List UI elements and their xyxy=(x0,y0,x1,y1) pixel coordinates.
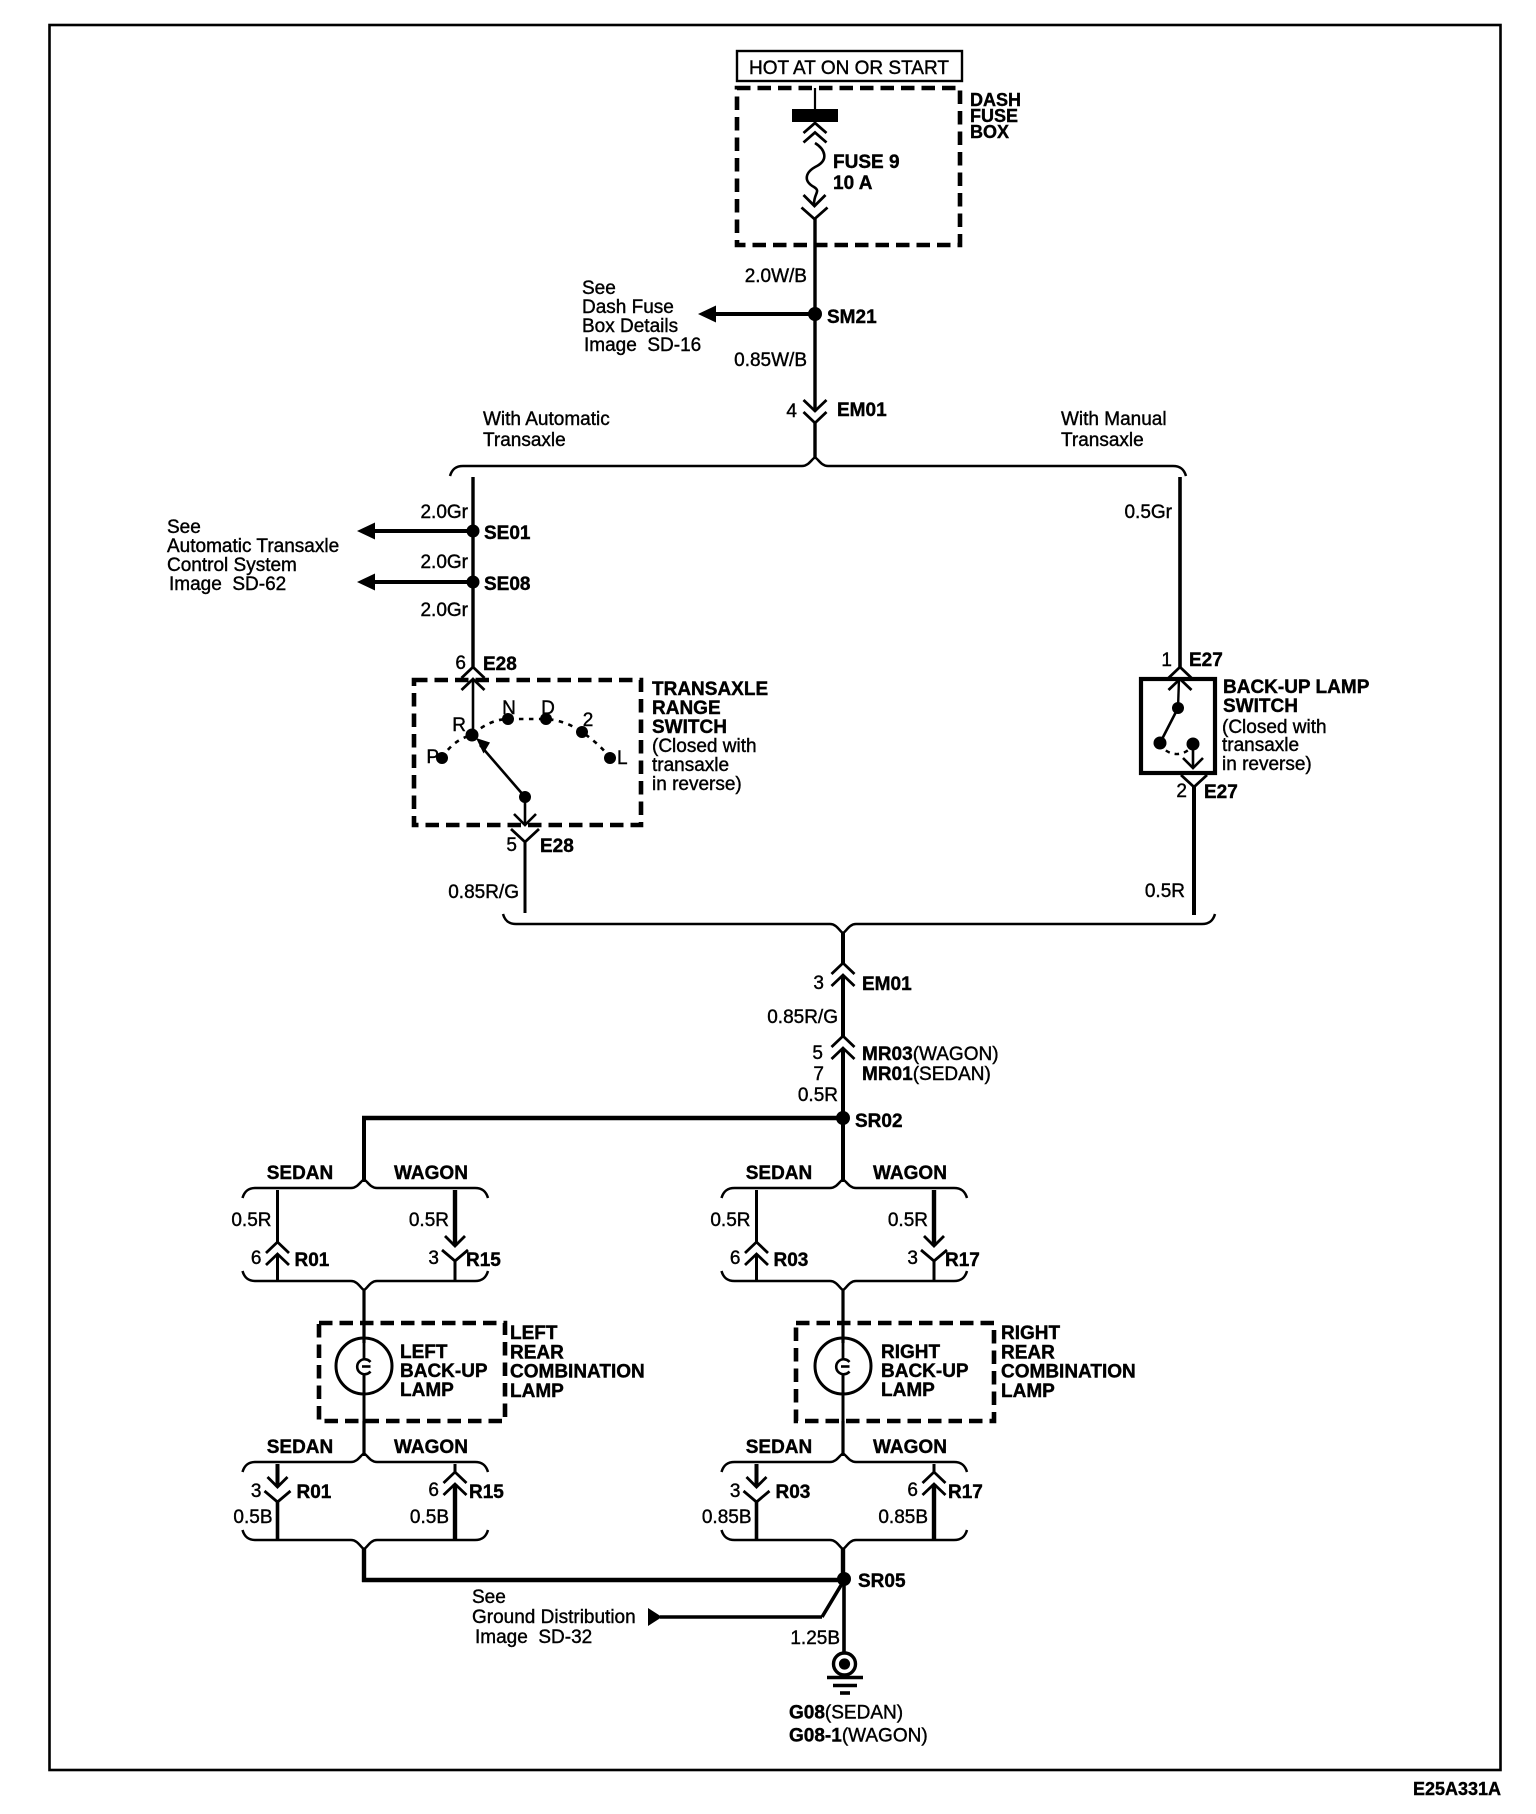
svg-text:MR03(WAGON): MR03(WAGON) xyxy=(862,1044,999,1065)
wire MR to SR02 xyxy=(841,1049,845,1119)
back-up lamp switch box xyxy=(1141,679,1215,773)
svg-text:R01: R01 xyxy=(297,1482,332,1503)
output arrow to pin 2 xyxy=(1192,744,1195,767)
svg-text:SEDAN: SEDAN xyxy=(267,1437,334,1458)
svg-text:COMBINATION: COMBINATION xyxy=(510,1362,645,1383)
svg-text:TRANSAXLE: TRANSAXLE xyxy=(652,679,768,700)
svg-text:With Manual: With Manual xyxy=(1061,409,1167,430)
merge brace Right bottom xyxy=(722,1530,968,1549)
contact L xyxy=(604,752,616,764)
svg-text:6: 6 xyxy=(455,653,466,674)
connector 6 E28 xyxy=(455,653,516,690)
svg-text:LEFT: LEFT xyxy=(510,1323,558,1344)
svg-text:SWITCH: SWITCH xyxy=(1223,696,1298,717)
contact D xyxy=(540,713,552,725)
svg-text:Control System: Control System xyxy=(167,555,297,576)
wire wagon 0.5R (Right) xyxy=(932,1190,936,1246)
svg-text:With Automatic: With Automatic xyxy=(483,409,610,430)
svg-text:EM01: EM01 xyxy=(862,974,912,995)
svg-text:G08(SEDAN): G08(SEDAN) xyxy=(789,1703,903,1724)
wire wagon ground (Right) xyxy=(932,1484,936,1540)
note See Automatic Transaxle Control System Image SD-62 xyxy=(167,517,339,595)
svg-text:3: 3 xyxy=(813,973,824,994)
wire SR02 distribution bus xyxy=(362,1116,843,1120)
svg-text:6: 6 xyxy=(907,1480,918,1501)
connector 4 EM01 xyxy=(786,400,887,423)
svg-text:L: L xyxy=(617,748,628,769)
svg-text:Image SD-16: Image SD-16 xyxy=(584,335,701,356)
movement arc (dashed) xyxy=(1160,743,1193,754)
svg-text:0.85R/G: 0.85R/G xyxy=(448,882,519,903)
svg-text:R03: R03 xyxy=(776,1482,811,1503)
svg-text:Image SD-62: Image SD-62 xyxy=(169,574,286,595)
wire wagon 0.5R (Left) xyxy=(453,1190,457,1246)
selector arc (dashed) xyxy=(442,719,610,758)
node SE08 xyxy=(467,574,531,595)
svg-text:2: 2 xyxy=(583,710,594,731)
label RIGHT BACK-UP LAMP xyxy=(881,1342,969,1401)
connector 6 R17 (wagon Right bottom) xyxy=(933,1464,936,1473)
see dash fuse box reference arrow xyxy=(698,306,815,323)
connector 3 R03 (sedan Right bottom) xyxy=(730,1477,810,1503)
svg-text:COMBINATION: COMBINATION xyxy=(1001,1362,1136,1383)
connector 6 R01 (sedan Left top) xyxy=(251,1242,330,1271)
svg-text:SR05: SR05 xyxy=(858,1571,906,1592)
svg-text:See: See xyxy=(472,1587,506,1608)
svg-text:Dash Fuse: Dash Fuse xyxy=(582,297,674,318)
svg-text:0.5R: 0.5R xyxy=(888,1210,928,1231)
connector 5 E28 xyxy=(506,829,573,857)
svg-text:E28: E28 xyxy=(483,654,517,675)
svg-text:LEFT: LEFT xyxy=(400,1342,448,1363)
label With Manual Transaxle xyxy=(1061,409,1167,451)
transaxle range switch box (dashed) xyxy=(414,680,641,825)
ground bus wire xyxy=(362,1578,845,1582)
connector 2 E27 xyxy=(1176,775,1237,803)
wire EM01 to MR xyxy=(841,976,845,1038)
connector 3 EM01 xyxy=(813,963,912,995)
wire manual branch down xyxy=(1178,477,1182,668)
switch output contact xyxy=(519,791,531,803)
switch contact bottom-left xyxy=(1154,737,1167,750)
split brace Right below lamp xyxy=(722,1454,968,1473)
svg-text:D: D xyxy=(541,698,555,719)
svg-text:SE01: SE01 xyxy=(484,523,531,544)
svg-text:R15: R15 xyxy=(469,1482,504,1503)
svg-text:(Closed with: (Closed with xyxy=(652,736,757,757)
wire Left to ground bus xyxy=(362,1549,366,1582)
Right back-up lamp bulb xyxy=(815,1338,871,1421)
svg-text:0.85W/B: 0.85W/B xyxy=(734,350,807,371)
svg-text:E27: E27 xyxy=(1204,782,1238,803)
svg-text:SEDAN: SEDAN xyxy=(267,1163,334,1184)
connector 3 R01 (sedan Left bottom) xyxy=(251,1477,332,1503)
svg-text:WAGON: WAGON xyxy=(394,1437,468,1458)
label LEFT REAR COMBINATION LAMP xyxy=(510,1323,645,1402)
label LEFT BACK-UP LAMP xyxy=(400,1342,488,1401)
wire E27 to merge xyxy=(1192,787,1196,915)
contact N xyxy=(502,713,514,725)
transaxle range switch internals xyxy=(426,679,627,825)
svg-text:WAGON: WAGON xyxy=(873,1437,947,1458)
svg-text:LAMP: LAMP xyxy=(881,1380,935,1401)
svg-text:G08-1(WAGON): G08-1(WAGON) xyxy=(789,1726,928,1747)
wire sedan 0.5R (Right) xyxy=(755,1190,758,1243)
svg-text:in reverse): in reverse) xyxy=(1222,754,1312,775)
svg-text:SM21: SM21 xyxy=(827,307,877,328)
svg-text:0.5R: 0.5R xyxy=(231,1210,271,1231)
wire EM01 to split xyxy=(813,423,816,459)
svg-text:0.85B: 0.85B xyxy=(702,1507,752,1528)
connector 6 R03 (sedan Right top) xyxy=(730,1242,808,1271)
svg-text:in reverse): in reverse) xyxy=(652,774,742,795)
svg-text:Transaxle: Transaxle xyxy=(1061,430,1144,451)
contact 2 xyxy=(576,726,588,738)
svg-text:Box Details: Box Details xyxy=(582,316,678,337)
note See Ground Distribution Image SD-32 xyxy=(472,1587,636,1648)
svg-text:6: 6 xyxy=(251,1248,262,1269)
svg-text:7: 7 xyxy=(813,1064,824,1085)
svg-text:BACK-UP: BACK-UP xyxy=(881,1361,969,1382)
svg-text:2.0Gr: 2.0Gr xyxy=(420,502,468,523)
svg-text:Ground Distribution: Ground Distribution xyxy=(472,1607,636,1628)
svg-text:R: R xyxy=(452,715,466,736)
svg-text:Image SD-32: Image SD-32 xyxy=(475,1627,592,1648)
label FUSE 9 / 10 A xyxy=(833,152,900,194)
svg-text:5: 5 xyxy=(812,1043,823,1064)
svg-text:4: 4 xyxy=(786,401,797,422)
svg-text:2.0Gr: 2.0Gr xyxy=(420,600,468,621)
split brace Left below lamp xyxy=(243,1454,489,1473)
contact R xyxy=(466,729,479,742)
svg-text:0.5Gr: 0.5Gr xyxy=(1124,502,1172,523)
Left back-up lamp bulb xyxy=(336,1338,392,1421)
node SR02 xyxy=(836,1111,903,1132)
wire automatic branch down xyxy=(471,477,474,531)
svg-text:6: 6 xyxy=(428,1480,439,1501)
svg-text:Automatic Transaxle: Automatic Transaxle xyxy=(167,536,339,557)
see reference arrow SE01 xyxy=(357,523,473,540)
output arrow to pin 5 xyxy=(524,797,527,823)
svg-text:EM01: EM01 xyxy=(837,400,887,421)
svg-text:3: 3 xyxy=(251,1481,262,1502)
connector 3 R15 (wagon Left top) xyxy=(428,1236,501,1271)
wire into Right lamp xyxy=(841,1290,844,1343)
svg-text:SEDAN: SEDAN xyxy=(746,1437,813,1458)
wire Right to ground bus xyxy=(841,1549,845,1582)
svg-text:0.5B: 0.5B xyxy=(233,1507,272,1528)
svg-text:REAR: REAR xyxy=(510,1342,564,1363)
svg-text:3: 3 xyxy=(428,1248,439,1269)
merge brace Left above lamp xyxy=(243,1271,489,1290)
label With Automatic Transaxle xyxy=(483,409,610,451)
svg-text:BACK-UP: BACK-UP xyxy=(400,1361,488,1382)
svg-text:0.85B: 0.85B xyxy=(878,1507,928,1528)
switch arm xyxy=(1160,708,1178,743)
node SE01 xyxy=(467,523,531,544)
see reference arrow SE08 xyxy=(357,574,473,591)
merge brace Left bottom xyxy=(243,1530,489,1549)
svg-text:E25A331A: E25A331A xyxy=(1413,1779,1501,1799)
svg-text:SWITCH: SWITCH xyxy=(652,717,727,738)
switch contact bottom-right xyxy=(1187,738,1200,751)
dash fuse box (dashed) xyxy=(737,88,960,245)
svg-text:2: 2 xyxy=(1176,781,1187,802)
svg-text:MR01(SEDAN): MR01(SEDAN) xyxy=(862,1064,991,1085)
wire SM21 to EM01 xyxy=(813,314,816,412)
svg-text:0.85R/G: 0.85R/G xyxy=(767,1007,838,1028)
svg-text:0.5R: 0.5R xyxy=(710,1210,750,1231)
svg-text:BACK-UP LAMP: BACK-UP LAMP xyxy=(1223,677,1370,698)
svg-text:10 A: 10 A xyxy=(833,173,873,194)
svg-text:E28: E28 xyxy=(540,836,574,857)
svg-text:3: 3 xyxy=(730,1481,741,1502)
split brace Left top xyxy=(243,1180,489,1199)
svg-text:0.5R: 0.5R xyxy=(1145,881,1185,902)
svg-text:Transaxle: Transaxle xyxy=(483,430,566,451)
label DASH FUSE BOX xyxy=(970,90,1021,142)
svg-text:SEDAN: SEDAN xyxy=(746,1163,813,1184)
wire SR02 bus to Right lamp branch xyxy=(841,1118,845,1182)
svg-text:transaxle: transaxle xyxy=(1222,735,1299,756)
split brace Right top xyxy=(722,1180,968,1199)
svg-text:1: 1 xyxy=(1161,650,1172,671)
svg-text:0.5R: 0.5R xyxy=(798,1085,838,1106)
Left rear combination lamp box (dashed) xyxy=(319,1323,505,1421)
connector 5 MR03 / 7 MR01 xyxy=(812,1036,998,1085)
svg-text:0.5R: 0.5R xyxy=(409,1210,449,1231)
connector 1 E27 xyxy=(1161,650,1222,690)
wire merge to EM01 xyxy=(841,932,845,964)
svg-text:REAR: REAR xyxy=(1001,1342,1055,1363)
wire into fuse xyxy=(814,88,816,112)
label TRANSAXLE RANGE SWITCH xyxy=(652,679,768,795)
svg-text:R17: R17 xyxy=(945,1250,980,1271)
svg-text:FUSE 9: FUSE 9 xyxy=(833,152,900,173)
svg-text:See: See xyxy=(582,278,616,299)
svg-text:R03: R03 xyxy=(774,1250,809,1271)
merge brace of branches xyxy=(503,914,1215,933)
wire SE08 to E28 xyxy=(471,582,474,668)
see ground distribution reference arrow xyxy=(648,1582,843,1626)
svg-text:RIGHT: RIGHT xyxy=(881,1342,941,1363)
wire E28 to merge xyxy=(524,842,527,913)
svg-text:3: 3 xyxy=(907,1248,918,1269)
back-up lamp switch internals xyxy=(1154,679,1204,768)
wire sedan 0.5R (Left) xyxy=(276,1190,279,1243)
wire wagon ground (Left) xyxy=(453,1484,457,1540)
wire SE01 to SE08 xyxy=(471,531,474,582)
svg-text:LAMP: LAMP xyxy=(400,1380,454,1401)
label RIGHT REAR COMBINATION LAMP xyxy=(1001,1323,1136,1402)
svg-text:See: See xyxy=(167,517,201,538)
label BACK-UP LAMP SWITCH xyxy=(1222,677,1370,775)
svg-text:LAMP: LAMP xyxy=(1001,1381,1055,1402)
node SR05 xyxy=(837,1571,906,1592)
wire Right lamp to lower split xyxy=(841,1421,844,1456)
switch contact top xyxy=(1172,702,1184,714)
svg-text:5: 5 xyxy=(506,835,517,856)
svg-text:2.0W/B: 2.0W/B xyxy=(745,266,807,287)
svg-text:E27: E27 xyxy=(1189,650,1223,671)
wire sedan ground (Left) xyxy=(276,1464,280,1487)
wire fusebox to SM21 xyxy=(813,219,816,314)
switch arm xyxy=(480,745,525,797)
title box HOT AT ON OR START xyxy=(737,51,962,81)
wire SR02 bus to Left lamp branch xyxy=(362,1118,366,1182)
wire SR05 to ground xyxy=(842,1579,846,1653)
svg-text:WAGON: WAGON xyxy=(873,1163,947,1184)
note See Dash Fuse Box Details Image SD-16 xyxy=(582,278,701,356)
connector 6 R15 (wagon Left bottom) xyxy=(454,1464,457,1473)
svg-text:HOT AT ON OR START: HOT AT ON OR START xyxy=(749,58,949,79)
svg-text:P: P xyxy=(426,747,439,768)
svg-text:1.25B: 1.25B xyxy=(790,1628,840,1649)
svg-text:RIGHT: RIGHT xyxy=(1001,1323,1061,1344)
merge brace Right above lamp xyxy=(722,1271,968,1290)
Right rear combination lamp box (dashed) xyxy=(796,1323,994,1421)
contact P xyxy=(436,752,448,764)
svg-text:6: 6 xyxy=(730,1248,741,1269)
svg-text:N: N xyxy=(502,698,516,719)
split brace automatic/manual xyxy=(450,458,1186,477)
svg-text:R15: R15 xyxy=(466,1250,501,1271)
wire Left lamp to lower split xyxy=(362,1421,365,1456)
svg-text:R17: R17 xyxy=(948,1482,983,1503)
svg-text:SE08: SE08 xyxy=(484,574,530,595)
fuse 9 symbol xyxy=(792,109,838,219)
svg-text:R01: R01 xyxy=(295,1250,330,1271)
svg-text:transaxle: transaxle xyxy=(652,755,729,776)
node SM21 xyxy=(808,307,877,328)
svg-text:WAGON: WAGON xyxy=(394,1163,468,1184)
ground symbol G08 xyxy=(827,1653,863,1693)
svg-text:SR02: SR02 xyxy=(855,1111,903,1132)
svg-text:BOX: BOX xyxy=(970,122,1009,142)
wire into Left lamp xyxy=(362,1290,365,1343)
connector 3 R17 (wagon Right top) xyxy=(907,1236,979,1271)
svg-text:2.0Gr: 2.0Gr xyxy=(420,552,468,573)
svg-text:0.5B: 0.5B xyxy=(410,1507,449,1528)
svg-text:LAMP: LAMP xyxy=(510,1381,564,1402)
svg-text:RANGE: RANGE xyxy=(652,698,721,719)
wire sedan ground (Right) xyxy=(755,1464,759,1487)
